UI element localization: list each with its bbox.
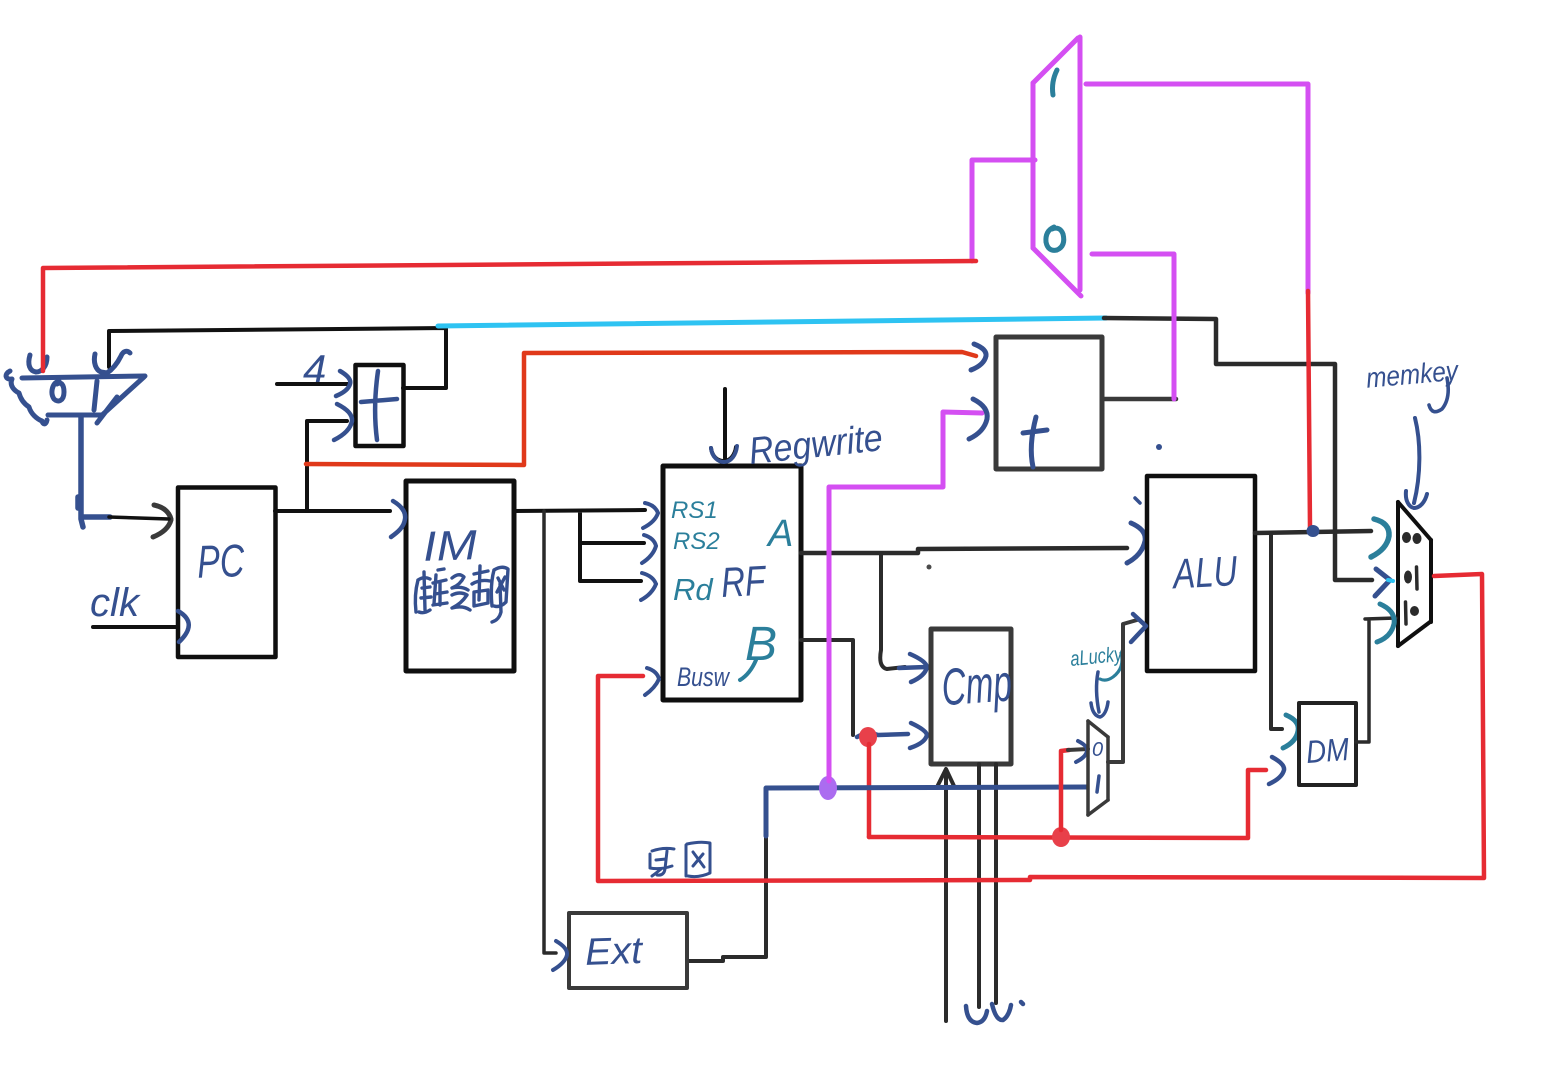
arrow into Ext (553, 941, 567, 970)
svg-text:A: A (766, 513, 793, 555)
comparator Cmp (931, 629, 1014, 764)
label 00 (1402, 532, 1422, 544)
arrow into PCsrc mux input1 (94, 351, 130, 373)
wire aLuck mux out up to ALU input b (1108, 620, 1137, 762)
arrow memkey label down to mux (1406, 418, 1427, 508)
wire red continuation down to ALU-out dot (1308, 291, 1310, 528)
arrow into Rd (641, 573, 656, 600)
arrow adder1 input a (336, 371, 350, 396)
arrow into aLuck mux input0 (1076, 741, 1087, 762)
svg-text:RS2: RS2 (673, 528, 720, 555)
arrow into adder2 input b (969, 399, 987, 439)
wire DM out up to memkey mux 10 (1356, 618, 1396, 742)
arrow into memkey mux input10 (1377, 604, 1394, 642)
arrow into RS1 (643, 503, 658, 528)
arrow into DM addr (1283, 715, 1298, 748)
IM chinese scribble (instruction store) (415, 566, 508, 622)
wire IM out down to Ext (544, 511, 556, 953)
sign extender Ext (569, 913, 687, 988)
arrow adder1 input b (334, 404, 352, 440)
wire big mux out to PCsrc mux (magenta then red) (972, 160, 1035, 261)
mux aLuckSrc (small) (1088, 721, 1108, 815)
wire red PC tap to adder2 input a (306, 352, 976, 465)
arrow into IM (391, 501, 405, 537)
wire red writeback from memkey mux out (598, 574, 1484, 881)
wire adder1 out up and left to PC mux (109, 328, 446, 388)
svg-text:aLucky: aLucky (1069, 643, 1124, 671)
wire red up to aLuck mux input0 (1061, 750, 1069, 830)
wire Ext out to rs2-val bus riser (687, 836, 766, 961)
wire big mux input1 from ALU result (magenta then red) (1086, 84, 1308, 293)
wire imm bus to aLuck mux input1 (navy) (766, 787, 1087, 836)
stray dot above Cmp (927, 565, 932, 570)
arrow into memkey mux input00 (1371, 519, 1389, 557)
stray dot near adder2 (1156, 444, 1162, 450)
arrow into DM data (1269, 757, 1284, 784)
RegWrite control arrow into RF (711, 389, 736, 461)
junction dot red at B/Cmp (859, 727, 877, 747)
wire ALU out to memkey mux 00 (1255, 531, 1371, 533)
label 0 in big mux (1046, 227, 1064, 250)
wire RF B out down to Cmp input2 (801, 640, 853, 735)
arrow into adder2 input a (971, 344, 986, 370)
wire control up into Cmp bottom (937, 769, 954, 1021)
svg-text:Busw: Busw (677, 662, 730, 692)
arrow into Cmp input1 (899, 654, 927, 682)
junction dot navy on ALU out (1307, 525, 1320, 537)
stray tick left of ALU (1135, 498, 1140, 503)
register PC (178, 488, 276, 658)
cyan speck at 01 arrow (1388, 580, 1393, 581)
junction dot red on rs2 bus (1052, 827, 1070, 847)
arrow into Busw (645, 668, 659, 695)
clock chevron on PC (178, 611, 189, 642)
arrow into RS2 (642, 535, 656, 563)
memkey y-tail flourish (1429, 378, 1448, 412)
wire clk into PC (93, 625, 176, 629)
svg-text:Ext: Ext (584, 930, 644, 974)
label 1 in big mux (1053, 70, 1058, 95)
svg-text:DM: DM (1305, 731, 1351, 770)
adder +1 box (356, 365, 404, 446)
label 01 (1404, 567, 1417, 589)
arrow ALU input A (1127, 523, 1145, 563)
data memory DM (1299, 703, 1356, 785)
mux PCsrc (top-left, hand drawn) (6, 371, 145, 424)
aLucky label tail curl (1100, 653, 1122, 680)
wire RF A out to ALU (801, 548, 1127, 553)
wire PC+4 gray to memkey mux 01 (1104, 318, 1372, 580)
ALU box (1147, 476, 1255, 671)
svg-text:Rd: Rd (673, 572, 714, 607)
wire const4 into adder1 (277, 382, 348, 386)
label 1 in aLuck mux (1097, 776, 1099, 792)
wire red from junction down to rs2-val bus (867, 744, 872, 837)
mux branch (big magenta) (1033, 37, 1081, 296)
arrow into Cmp input2 (857, 723, 927, 748)
arrow into PC (153, 505, 171, 537)
wire red store-data into DM (1248, 770, 1266, 837)
wire red rs2-val bus horizontal (869, 837, 1248, 838)
wire cyan PC+4 across (438, 318, 1106, 326)
wire ALU out tap down to DM (1271, 533, 1282, 729)
wire control line 3 from Cmp bottom (994, 764, 998, 1003)
wire mux out to PC arrow (109, 517, 169, 519)
wire IM out to RF ports (514, 510, 645, 581)
wire PCsrc mux out down to PC (78, 416, 110, 527)
svg-text:PC: PC (196, 534, 245, 588)
register file RF (663, 466, 801, 700)
arrow into PCsrc mux input0 (29, 355, 47, 372)
svg-text:B: B (745, 618, 777, 671)
mux memkey (right) (1398, 502, 1431, 646)
wire PC out to IM (275, 509, 390, 513)
instruction memory IM (406, 481, 514, 671)
wire PC-out tap up to adder1 (307, 421, 347, 511)
writeback label (Chinese) (650, 842, 710, 876)
arrows bottom control hooks (966, 1002, 1023, 1023)
svg-text:ALU: ALU (1170, 547, 1239, 597)
svg-text:Cmp: Cmp (940, 654, 1014, 717)
svg-text:0: 0 (1092, 739, 1103, 761)
svg-text:RF: RF (720, 557, 768, 606)
wire control line 2 from Cmp bottom (977, 764, 981, 1007)
svg-text:clk: clk (90, 581, 141, 625)
junction dot violet imm/branch tap (819, 776, 837, 800)
svg-text:IM: IM (422, 521, 478, 570)
wire A tap down to Cmp input1 (880, 553, 905, 669)
wire magenta imm up to adder2 (829, 412, 982, 781)
wire adder2 out right (1102, 397, 1176, 402)
adder +2 box (996, 337, 1102, 469)
arrow into ALU input b (1131, 614, 1146, 642)
svg-text:RS1: RS1 (671, 497, 718, 524)
svg-text:Regwrite: Regwrite (747, 417, 885, 473)
arrow into memkey mux input01 (1375, 569, 1390, 596)
arrow aLucky down to mux (1091, 672, 1108, 717)
label 10 (1406, 602, 1420, 624)
wire red nextPC across top to PCsrc mux (43, 261, 976, 371)
wire magenta adder2 up to big mux input0 (1092, 254, 1174, 399)
